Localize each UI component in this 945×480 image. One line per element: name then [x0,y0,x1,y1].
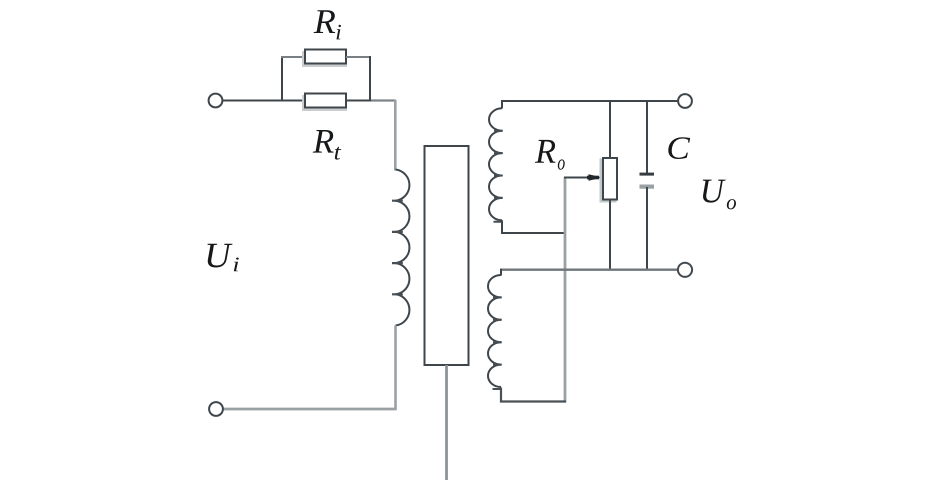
wire wiper horizontal [564,177,592,179]
wire input top horizontal [223,100,305,102]
resistor Rt [304,94,347,110]
label Uo [703,180,736,210]
wiper arrow head [587,174,603,181]
core rod [445,365,448,480]
wire top branch right [346,56,371,58]
wire Ro top [609,100,611,158]
transformer secondary winding 1 [489,108,503,222]
resistor Ri [304,50,347,66]
label Rt [313,130,342,160]
wire junction vertical [564,178,567,403]
wire secondary1 top corner [502,101,678,109]
wire down to primary [394,100,397,171]
wire parallel-branch left vertical [281,56,283,101]
label Ui [208,244,239,271]
label C [668,137,690,159]
wire output top terminal stub [677,100,680,102]
wire primary bottom [394,326,397,411]
wire capacitor bottom [646,187,648,270]
capacitor C bottom plate [640,185,655,189]
terminal output top-right [678,94,692,108]
wire Ro bottom [609,200,611,271]
wire corner to primary [371,99,395,102]
wire output bottom horizontal [500,269,678,271]
transformer secondary winding 2 [488,275,502,389]
wire parallel-branch right vertical [369,56,371,101]
wire input bottom horizontal [223,408,397,411]
wire main to transformer [346,100,372,102]
capacitor C top plate [640,173,655,176]
label Ri [314,10,341,39]
label Ro [535,140,565,170]
transformer core [425,146,469,365]
terminal input top-left [209,94,223,108]
wire secondary2 top corner [500,269,502,276]
terminal output bottom-right [678,263,692,277]
wire secondary1 bottom [502,220,566,233]
transformer primary winding [392,170,409,326]
terminal input bottom-left [209,402,223,416]
wire secondary2 bottom [501,388,566,402]
potentiometer Ro [601,158,617,201]
wire top branch left [281,56,305,58]
wire capacitor top [646,100,648,173]
